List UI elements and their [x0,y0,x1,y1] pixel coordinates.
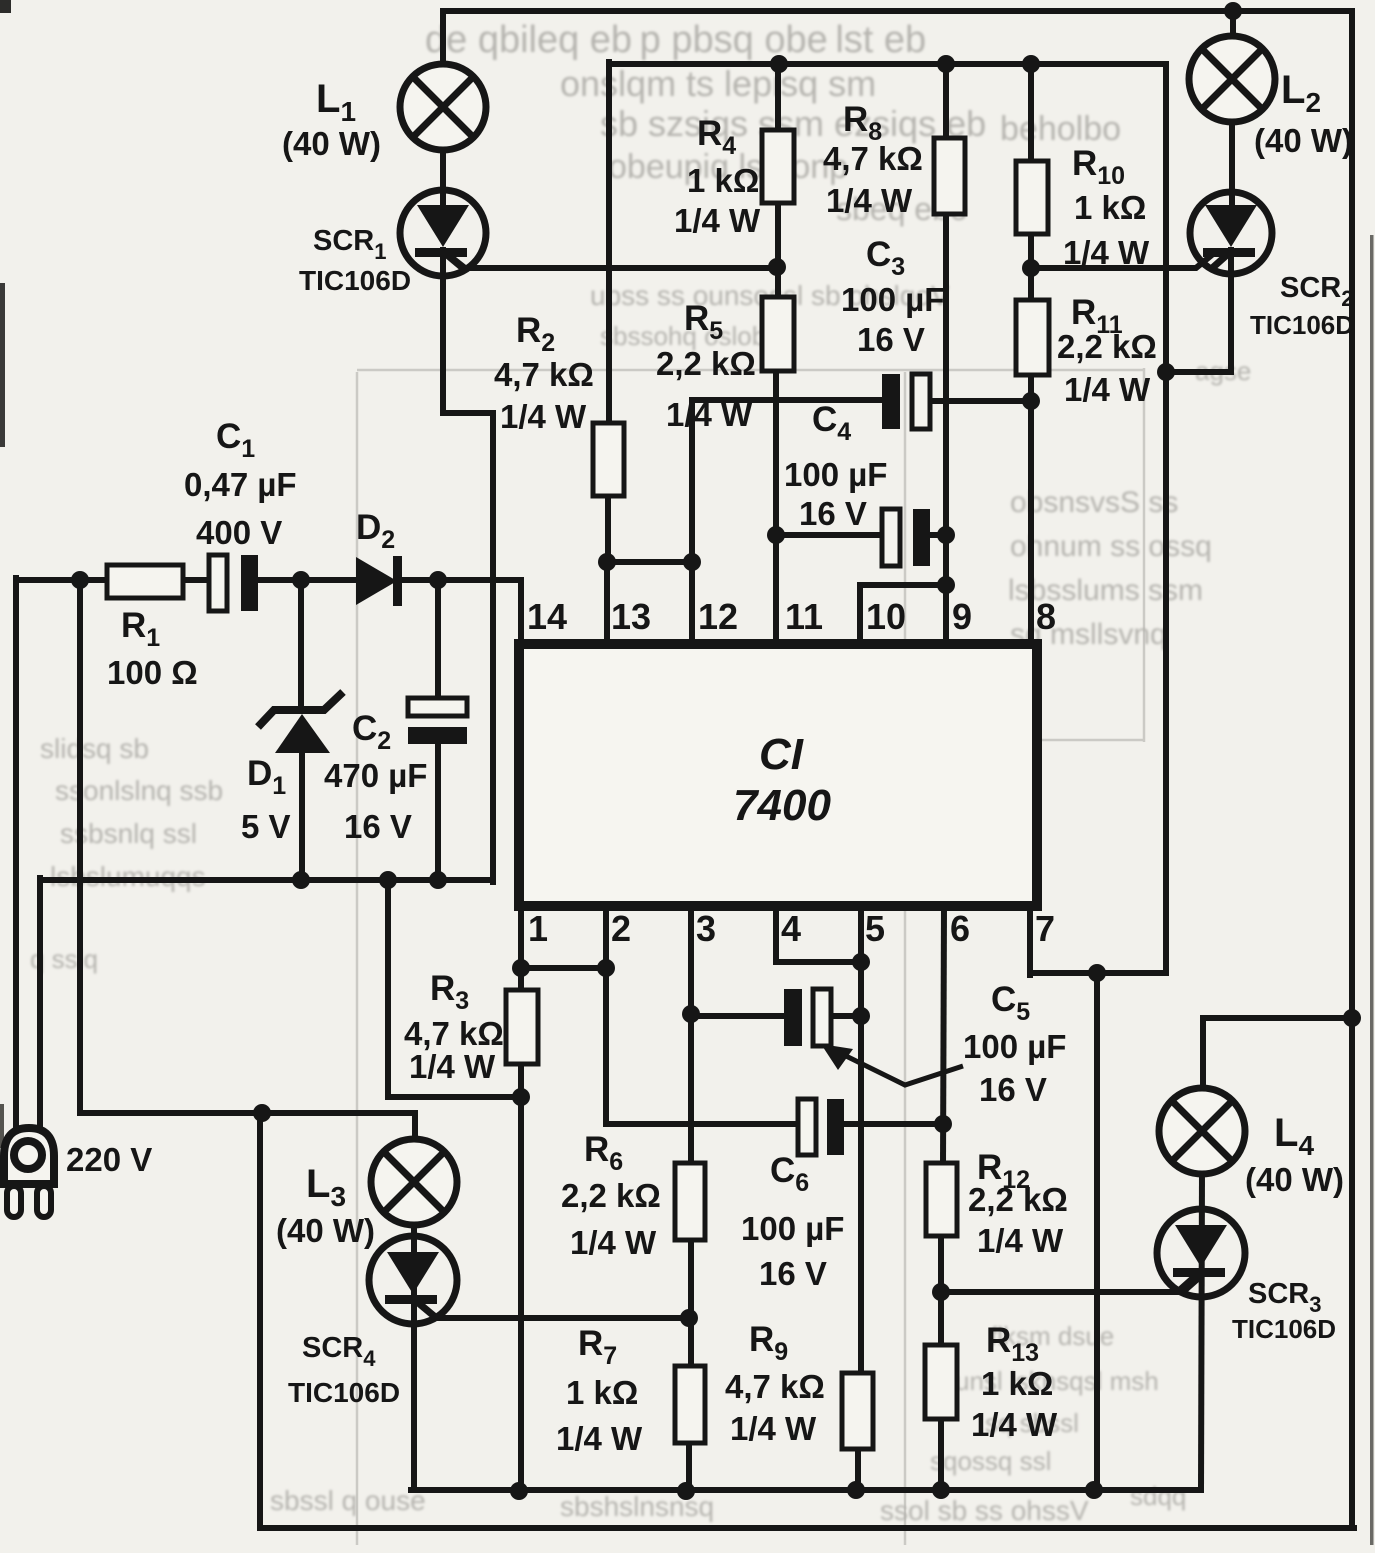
wire: C4 right lead [929,532,946,538]
svg-text:8: 8 [1036,596,1056,637]
node: C4 left on pin11 [767,526,785,544]
node: ground rail x1097 [1085,1481,1103,1499]
wire: live branch to L3 and outer loop [80,580,415,1143]
wire: R1 to C1 [181,577,212,583]
wire: pin 2 column to C6 [606,968,800,1124]
svg-text:ssol sb ss ohssV: ssol sb ss ohssV [880,1495,1089,1526]
resistor R11 body [1016,300,1049,375]
wire: mains top rail with right side drop [443,11,1352,1528]
wire: C4 left lead [776,532,884,538]
svg-text:100 µF: 100 µF [963,1028,1066,1065]
wire: pin 4 branch [776,908,861,962]
wire: C2 bottom lead [435,742,441,882]
node: R6/R7/SCR4 gate [680,1309,698,1327]
svg-text:slidsq sb: slidsq sb [40,733,149,764]
wire: R10 top stub [1028,62,1034,163]
svg-text:2: 2 [611,908,631,949]
node: ground rail R13 [932,1481,950,1499]
resistor R7 body [675,1366,705,1443]
wire: SCR2 cathode down-left [1163,250,1231,372]
svg-text:1/4 W: 1/4 W [674,202,761,239]
wire: L4 through SCR3 to ground rail [1201,1172,1202,1490]
svg-text:4: 4 [781,908,801,949]
node: pin1 link [512,959,530,977]
resistor R5 body [762,297,794,371]
thyristor SCR2 [1190,192,1272,274]
node: pin13 top [598,553,616,571]
wire: C5 right lead [830,1013,861,1019]
wire: R6-R7 junction column [688,1238,694,1368]
wire: pin1-pin2 link [521,965,606,971]
wire: pin 2 stub [603,908,609,970]
wire: R-top supply rail y=64 [609,64,1166,372]
node: R10/R11/SCR2 gate [1022,259,1040,277]
diode D2 [356,556,402,606]
svg-text:10: 10 [866,596,906,637]
wire: R10-R11 junction column [1028,232,1034,302]
svg-text:11: 11 [785,596,823,637]
svg-text:sdqq: sdqq [1130,1481,1186,1511]
svg-text:3: 3 [696,908,716,949]
svg-text:1/4 W: 1/4 W [570,1224,657,1261]
svg-text:4,7 kΩ: 4,7 kΩ [404,1015,504,1052]
node: L2 tap on top rail [1224,2,1242,20]
wire: R9 bottom to ground rail [855,1447,861,1492]
node: D1 top [292,571,310,589]
thyristor SCR1 [400,190,486,276]
svg-text:1/4 W: 1/4 W [971,1406,1058,1443]
capacitor C2 [408,698,467,744]
node: R4/R5/SCR1 gate [768,258,786,276]
wire: R8 top stub [943,64,949,140]
svg-text:sqossq ssl: sqossq ssl [930,1446,1051,1476]
wire: right riser x=1166 to pin7 run [1030,369,1166,973]
wire: pin 10 branch [860,585,946,648]
wire: pin 5 column [858,908,864,1375]
svg-text:1/4 W: 1/4 W [666,396,753,433]
capacitor C4 [882,509,930,566]
wire: L3 through SCR4 to ground rail [411,1140,417,1490]
svg-text:de qbileq eb p pbsq obe ls: de qbileq eb p pbsq obe lst eb [425,19,926,61]
resistor R12 body [926,1163,957,1236]
wire: L4 feed from outer loop [1203,1018,1352,1090]
wire: ground rail y=1490 [411,1487,1201,1493]
node: ground rail R7 [677,1482,695,1500]
svg-text:2,2 kΩ: 2,2 kΩ [968,1181,1068,1218]
svg-text:7: 7 [1035,908,1055,949]
wire: L2 to SCR2 anode [1229,121,1235,208]
svg-text:1/4 W: 1/4 W [500,398,587,435]
svg-text:1/4 W: 1/4 W [730,1410,817,1447]
wire: left AC lead x=16 [13,578,19,1133]
svg-text:1 kΩ: 1 kΩ [687,162,759,199]
svg-text:TIC106D: TIC106D [1232,1314,1336,1344]
wire: D1 bottom lead [299,750,305,882]
wire: R5 bottom through pin 11 column [773,369,779,648]
svg-text:6: 6 [950,908,970,949]
wire: L2 top stub [1230,11,1236,38]
svg-text:16 V: 16 V [979,1071,1047,1108]
wire: pin13-pin12 link [605,559,692,565]
resistor R9 body [842,1373,873,1449]
thyristor SCR4 [369,1236,457,1324]
node: pin9/pin10 link [937,576,955,594]
wire: C1 to D2 with D1 tap [255,577,356,583]
wire: neutral AC lead x=40 [37,878,43,1133]
wire: D2 to pin 14 corner [399,580,521,648]
resistor R3 body [506,990,538,1064]
wire: R7 bottom to ground rail [686,1441,692,1493]
wire: x=1097 drop to ground rail [1094,973,1100,1492]
wire: outer bottom return and left riser [260,1110,1354,1528]
svg-text:100 µF: 100 µF [841,281,944,318]
svg-text:2,2 kΩ: 2,2 kΩ [656,345,756,382]
svg-text:TIC106D: TIC106D [299,265,411,296]
wire: SCR3 gate [941,1277,1200,1292]
node: D1 bottom [292,871,310,889]
wire: R2 column bottom [605,494,611,563]
wire: D1 top lead [298,580,304,710]
wire: pin 1 stub [518,908,524,992]
svg-text:(40 W): (40 W) [276,1212,375,1249]
svg-text:ohnum ss ossq: ohnum ss ossq [1010,530,1212,563]
svg-text:4,7 kΩ: 4,7 kΩ [725,1368,825,1405]
thyristor SCR3 [1157,1209,1245,1297]
node: C6 right on pin6 [934,1115,952,1133]
wire: R12-R13 junction column [938,1234,944,1347]
wire: rectifier bottom rail y=880 [40,877,493,883]
capacitor C5 [784,989,831,1046]
svg-text:14: 14 [527,596,567,637]
node: pin12 top [683,553,701,571]
svg-text:CI: CI [759,730,804,779]
svg-text:4,7 kΩ: 4,7 kΩ [823,140,923,177]
wire: pin 13 stub [604,562,610,648]
node: R12/R13/SCR3 gate [932,1283,950,1301]
capacitor C1 [209,555,258,611]
node: L4 tap on right riser [1343,1009,1361,1027]
wire: SCR1 gate [446,253,777,268]
capacitor C6 [798,1099,844,1155]
node: outer loop tap [253,1104,271,1122]
wire: C5 left lead [691,1013,786,1019]
wire: SCR4 gate [417,1302,689,1318]
svg-text:lsbslumuqqs: lsbslumuqqs [50,861,206,892]
node: ground rail pin1 [510,1482,528,1500]
svg-text:1 kΩ: 1 kΩ [981,1365,1053,1402]
svg-text:400 V: 400 V [196,514,282,551]
node: pin1 ground tap [512,1088,530,1106]
wire: L1 to SCR1 anode [440,148,446,208]
lamp L2 [1189,36,1275,122]
svg-text:TIC106D: TIC106D [288,1377,400,1408]
node: C2 top [429,571,447,589]
svg-text:1: 1 [528,908,548,949]
lamp L3 [371,1139,457,1225]
C5 pointer arrow [821,1044,963,1085]
svg-text:1/4 W: 1/4 W [826,182,913,219]
wire: C2 top lead [435,580,441,701]
svg-text:(40 W): (40 W) [1254,122,1353,159]
node: R4 top [770,55,788,73]
lamp L4 [1159,1088,1245,1174]
resistor R2 body [593,423,624,496]
wire: R11 bottom through pin 8 [1028,373,1034,648]
svg-text:1 kΩ: 1 kΩ [566,1374,638,1411]
220V mains plug [4,1128,54,1217]
resistor R4 body [762,130,794,203]
wire: pin 3 column upper [688,908,694,1165]
svg-text:obsnsvsS ss: obsnsvsS ss [1010,486,1178,519]
node: C3/R11/pin8 [1022,392,1040,410]
svg-text:1/4 W: 1/4 W [977,1222,1064,1259]
svg-text:100 Ω: 100 Ω [107,654,198,691]
svg-text:beholbo: beholbo [1000,110,1121,148]
node: C5 right on pin5 [852,1007,870,1025]
lamp L1 [400,64,486,150]
resistor R6 body [675,1163,705,1240]
node: pin7 drop [1088,964,1106,982]
svg-text:16 V: 16 V [759,1255,827,1292]
wire: C3 right lead [929,398,1031,404]
svg-text:1 kΩ: 1 kΩ [1074,189,1146,226]
wire: SCR1 cathode jog down [443,250,493,882]
svg-text:5: 5 [865,908,885,949]
wire: R2 column top [606,62,612,425]
wire: SCR2 gate [1031,254,1213,268]
svg-text:100 µF: 100 µF [784,456,887,493]
svg-text:4,7 kΩ: 4,7 kΩ [494,356,594,393]
node: C5 left on pin3 [682,1005,700,1023]
node: ground rail R9 [847,1481,865,1499]
svg-text:100 µF: 100 µF [741,1210,844,1247]
svg-text:(40 W): (40 W) [282,125,381,162]
wire: R8 down through pin 9 [943,212,949,648]
node: C2 bottom [429,871,447,889]
wire: pin 7 stub [1027,908,1033,975]
node: C4 right on pin9 [937,526,955,544]
wire: R4-R5 junction column [775,201,781,300]
svg-text:1/4 W: 1/4 W [556,1420,643,1457]
wire: pin 1 column to ground rail [518,1062,524,1493]
node: live branch tap [71,571,89,589]
wire: R4 top stub [775,64,781,132]
svg-text:7400: 7400 [733,781,831,830]
wire: AC live to R1 [16,577,109,583]
wire: pin 6 column [943,908,944,1165]
wire: R13 bottom to ground rail [938,1417,944,1492]
IC CI 7400 [519,644,1037,906]
svg-text:1/4 W: 1/4 W [409,1048,496,1085]
node: pin4/pin5 link [852,953,870,971]
svg-text:2,2 kΩ: 2,2 kΩ [561,1177,661,1214]
svg-text:0,47 µF: 0,47 µF [184,466,297,503]
svg-text:12: 12 [698,596,738,637]
svg-text:13: 13 [611,596,651,637]
svg-text:1/4 W: 1/4 W [1064,371,1151,408]
svg-text:16 V: 16 V [799,495,867,532]
svg-text:1/4 W: 1/4 W [1063,234,1150,271]
resistor R8 body [934,138,965,214]
capacitor C3 [882,374,930,429]
svg-text:TIC106D: TIC106D [1250,310,1354,340]
node: ground branch [379,871,397,889]
node: pin2 link [597,959,615,977]
svg-text:sbssl q ouse: sbssl q ouse [270,1485,426,1516]
svg-text:5 V: 5 V [241,808,291,845]
svg-text:470 µF: 470 µF [324,757,427,794]
svg-text:16 V: 16 V [857,321,925,358]
wire: C6 right lead [842,1121,943,1127]
svg-text:9: 9 [952,596,972,637]
resistor R1 body [107,565,183,598]
node: R8 top [937,55,955,73]
svg-text:220 V: 220 V [66,1141,152,1178]
svg-text:2,2 kΩ: 2,2 kΩ [1057,328,1157,365]
node: R10 top [1022,55,1040,73]
zener diode D1 [258,692,343,753]
resistor R13 body [925,1345,957,1419]
resistor R10 body [1016,161,1048,234]
node: SCR2 cathode to riser [1157,363,1175,381]
wire: pin 12 column up to C3 run [692,400,880,648]
svg-text:(40 W): (40 W) [1245,1161,1344,1198]
svg-text:16 V: 16 V [344,808,412,845]
wire: ground link y=1097 [388,878,521,1097]
